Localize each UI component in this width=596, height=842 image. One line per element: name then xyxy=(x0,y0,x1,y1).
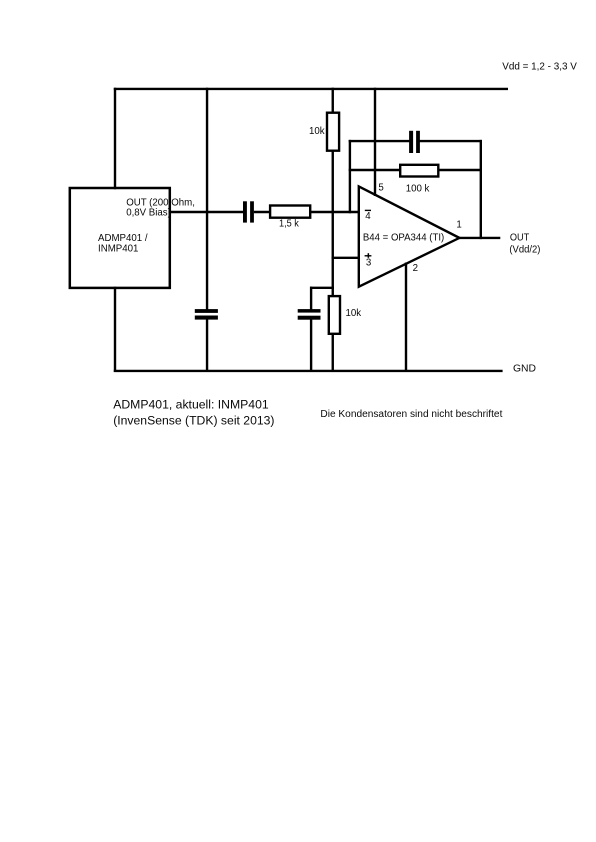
wire feedback right vertical to output xyxy=(480,140,482,239)
svg-text:1: 1 xyxy=(456,219,461,230)
wire mic box to GND xyxy=(114,287,116,372)
svg-text:GND: GND xyxy=(513,364,536,375)
wire bypass capacitor top lead xyxy=(310,287,312,310)
svg-text:10k: 10k xyxy=(346,308,362,319)
label pin 4 inverting input xyxy=(365,210,371,211)
svg-text:4: 4 xyxy=(365,211,371,222)
op-amp B44 = OPA344 (TI) xyxy=(359,186,460,286)
svg-text:(InvenSense (TDK) seit 2013): (InvenSense (TDK) seit 2013) xyxy=(113,414,274,428)
svg-text:B44 = OPA344 (TI): B44 = OPA344 (TI) xyxy=(363,232,444,243)
resistor 1,5k xyxy=(270,206,310,218)
svg-text:0,8V Bias): 0,8V Bias) xyxy=(126,208,171,219)
svg-text:INMP401: INMP401 xyxy=(98,244,138,255)
wire lower 10k resistor to GND xyxy=(332,333,334,372)
svg-text:2: 2 xyxy=(413,263,418,274)
wire Vdd rail to top 10k resistor xyxy=(332,88,334,114)
resistor 100k (feedback) xyxy=(400,165,438,177)
wire Vdd rail to mic box xyxy=(114,88,116,190)
wire GND rail xyxy=(114,370,503,372)
wire op-amp output (pin 1) to OUT xyxy=(458,237,500,239)
wire bias divider middle (10k to 10k) xyxy=(332,150,334,297)
wire decoupling capacitor to GND xyxy=(206,319,208,372)
capacitor (Vdd decoupling, unlabeled) xyxy=(195,309,218,313)
svg-text:ADMP401 /: ADMP401 / xyxy=(98,233,148,244)
wire bias node jog to bypass capacitor xyxy=(310,287,334,289)
svg-text:ADMP401, aktuell: INMP401: ADMP401, aktuell: INMP401 xyxy=(113,398,269,412)
wire feedback resistor branch right xyxy=(438,169,482,171)
svg-text:100 k: 100 k xyxy=(406,183,430,194)
wire bypass capacitor to GND xyxy=(310,319,312,372)
wire feedback resistor branch left xyxy=(349,169,401,171)
wire Vdd top rail xyxy=(114,88,508,90)
capacitor (bias bypass, unlabeled) xyxy=(298,309,321,313)
svg-text:(Vdd/2): (Vdd/2) xyxy=(509,245,540,256)
resistor 10k (upper bias divider) xyxy=(327,113,339,151)
wire feedback capacitor branch right xyxy=(420,140,482,142)
svg-text:5: 5 xyxy=(378,183,383,194)
wire op-amp pin 2 to GND xyxy=(405,263,407,373)
wire bias node to non-inverting input (pin 3) xyxy=(332,257,360,259)
svg-text:Vdd = 1,2 - 3,3 V: Vdd = 1,2 - 3,3 V xyxy=(502,62,577,73)
wire feedback left vertical xyxy=(349,140,351,213)
wire resistor 1,5k to op-amp inverting input (pin 4) xyxy=(309,211,359,213)
svg-text:1,5 k: 1,5 k xyxy=(279,218,299,229)
wire feedback capacitor branch left xyxy=(349,140,410,142)
wire Vdd rail to decoupling capacitor xyxy=(206,88,208,310)
wire mic output to coupling capacitor xyxy=(169,211,244,213)
svg-text:OUT: OUT xyxy=(510,233,529,244)
label pin 3 non-inverting input xyxy=(365,255,372,256)
microphone ADMP401/INMP401 box xyxy=(70,188,170,288)
capacitor (feedback, unlabeled) xyxy=(409,131,413,153)
svg-text:3: 3 xyxy=(366,258,371,269)
svg-text:10k: 10k xyxy=(309,126,325,137)
wire coupling capacitor to resistor 1,5k xyxy=(254,211,271,213)
wire Vdd rail to op-amp power pin 5 xyxy=(374,88,376,196)
svg-text:Die Kondensatoren sind nicht b: Die Kondensatoren sind nicht beschriftet xyxy=(320,409,502,420)
resistor 10k (lower bias divider) xyxy=(329,296,340,334)
capacitor (input coupling, unlabeled) xyxy=(243,201,247,222)
